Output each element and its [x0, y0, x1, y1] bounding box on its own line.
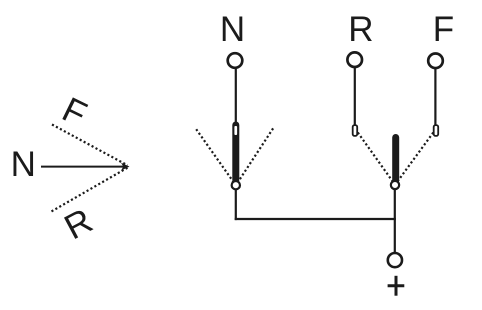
pivot node (N pole) — [232, 181, 240, 189]
terminal R — [347, 52, 362, 67]
pivot node (R/F pole) — [391, 181, 399, 189]
dotted blade position toward F — [396, 133, 433, 184]
svg-text:R: R — [348, 10, 373, 49]
moving contact blade (N pole, closed on N) — [232, 125, 239, 180]
terminal plus — [388, 253, 402, 267]
wire R terminal to contact — [354, 68, 356, 125]
lever arrow shaft (N position) — [41, 166, 124, 168]
bus wire — [235, 218, 396, 220]
svg-text:N: N — [220, 10, 245, 49]
wire pivot to plus terminal — [394, 189, 396, 252]
label plus — [388, 276, 405, 296]
lever dotted R position — [52, 168, 128, 212]
terminal N — [228, 53, 243, 68]
moving contact blade (R/F pole, open) — [392, 138, 399, 181]
terminal F — [428, 54, 443, 69]
fixed contact N — [234, 125, 239, 136]
dotted blade position right (N pole) — [238, 128, 273, 182]
fixed contact F — [434, 125, 439, 136]
lever arrowhead — [121, 163, 130, 171]
svg-text:N: N — [11, 145, 36, 184]
wire F terminal to contact — [434, 69, 436, 125]
dotted blade position left (N pole) — [196, 129, 233, 182]
svg-text:F: F — [433, 10, 454, 49]
wire N pivot to bus — [235, 189, 237, 220]
fixed contact R — [353, 125, 358, 136]
wire N terminal to contact — [235, 69, 237, 126]
lever dotted F position — [52, 125, 128, 166]
dotted blade position toward R — [358, 133, 394, 184]
